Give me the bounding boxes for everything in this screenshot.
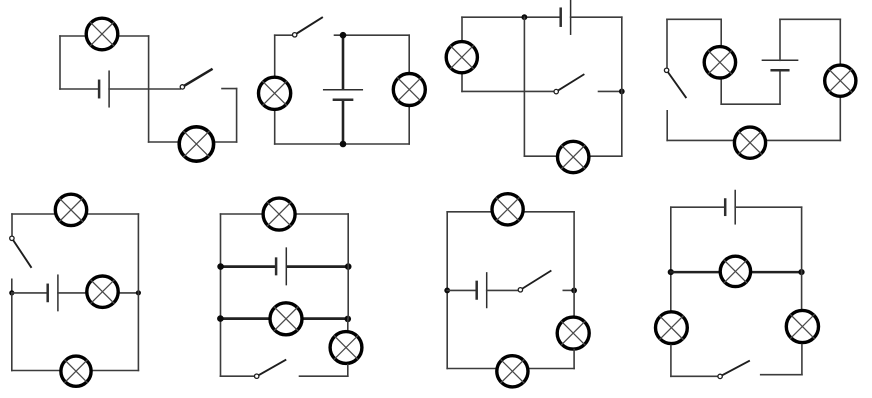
lamp C6 middle [270,303,302,335]
wire C8 bottom-left horizontal [671,375,718,377]
junction C5 right [136,290,141,295]
lamp C2 left [259,77,291,109]
wire C1 hook horizontal [222,88,237,90]
wire C7 left vertical [446,212,448,369]
wire C6 right vertical lower [347,365,349,377]
lamp C7 bottom [497,356,528,387]
wire C6 battery row left [221,265,275,268]
wire C3 bottom horizontal [524,155,621,157]
wire C5 left vertical lower [11,293,13,371]
lamp C4 left [704,47,735,78]
wire C4 left vertical upper [666,19,668,68]
switch C5 [10,236,31,267]
wire C7 right vertical upper [573,212,575,317]
wire C6 right vertical mid [347,319,349,331]
lamp C8 middle [720,256,750,286]
wire C4 right vertical [839,19,841,140]
battery C3 [561,0,571,34]
wire C8 right vertical upper [801,207,803,308]
wire C1 bottom horizontal [149,141,237,143]
lamp C6 right [330,332,362,364]
switch C2 [293,18,323,37]
lamp C1 top [86,18,118,50]
wire C7 bottom horizontal [447,368,574,370]
lamp C5 middle [87,276,118,307]
wire C7 switch-to-corner [563,289,574,291]
lamp C8 left [656,312,688,344]
wire C2 top-left segment [275,34,293,36]
wire C6 top horizontal [221,213,349,215]
wire C6 right vertical upper [347,214,349,319]
lamp C2 right [393,74,425,106]
junction C8 right [798,269,804,275]
junction C7 right [571,288,577,294]
lamp C7 top [492,194,523,225]
wire C6 left vertical [220,214,222,376]
wire C8 right vertical lower [801,345,803,375]
wire C8 left vertical lower [670,345,672,376]
wire C1 right vertical of top loop [148,36,150,142]
wire C5 left vertical upper [11,214,13,236]
battery C6 [276,248,286,285]
wire C8 left vertical upper [670,207,672,310]
junction C6 lamp-row right [345,316,352,323]
wire C8 middle row [671,271,802,274]
lamp C4 bottom [734,127,765,158]
wire C4 connector horizontal [721,103,780,105]
wire C2 middle vertical upper [342,35,345,88]
junction C6 battery-row right [345,263,352,270]
junction C3 right [619,89,625,95]
battery C5 [48,275,58,310]
junction C6 lamp-row left [217,315,224,322]
wire C1 battery row [60,88,99,90]
battery C7 [477,273,487,308]
wire C6 lamp row [221,317,348,320]
wire C3 switch-to-corner [599,90,622,92]
lamp C3 bottom [558,141,589,172]
wire C3 top-right horizontal [571,16,622,18]
junction C6 battery-row left [217,263,224,270]
wire C3 middle vertical [523,17,525,156]
wire C4 right top horizontal [780,18,840,20]
lamp C7 right [557,317,589,349]
wire C7 battery-to-switch [487,289,519,291]
switch C1 [180,70,211,90]
wire C4 left-loop top [667,18,721,20]
battery C4 [762,60,797,70]
junction C3 top [522,14,528,20]
lamp C5 bottom [61,356,91,386]
wire C3 left vertical [461,17,463,91]
lamp C6 top [263,198,295,230]
wire C6 battery row right [288,265,349,268]
lamp C5 top [55,194,86,225]
switch C8 [718,361,749,379]
wire C7 top horizontal [447,211,574,213]
switch C4 [664,68,685,97]
lamp C4 right [825,65,856,96]
junction C2 bottom [340,141,347,148]
wire C7 right vertical lower [573,350,575,369]
wire C1 top-left vertical [59,36,61,89]
wire C3 middle horizontal [462,90,554,92]
wire C7 battery row left [447,289,475,291]
lamp C3 left [446,42,477,73]
junction C7 left [444,288,450,294]
wire C2 left vertical [274,35,276,144]
wire C2 middle vertical lower [342,101,345,144]
switch C6 [255,360,286,378]
wire C6 bottom-right horizontal [300,375,348,377]
junction C8 left [668,269,674,275]
lamp C8 right [786,310,818,342]
wire C4 left-loop right vertical [720,19,722,104]
wire C5 left stub above junction [11,279,13,293]
wire C2 bottom horizontal [275,143,410,145]
lamp C1 bottom [179,127,213,161]
switch C3 [554,75,584,94]
battery C8 [725,191,735,224]
wire C4 left vertical lower [666,111,668,141]
wire C1 battery-to-switch [109,88,180,90]
junction C5 left [9,290,14,295]
wire C4 bottom horizontal [667,139,840,141]
wire C5 top horizontal [12,213,138,215]
wire C1 top horizontal [60,35,149,37]
battery C1 [99,71,109,107]
wire C8 top-right horizontal [735,206,801,208]
wire C5 right vertical [137,214,139,371]
wire C5 battery row right [58,292,138,294]
wire C2 right vertical [408,35,410,144]
switch C7 [518,271,550,292]
wire C8 top-left horizontal [671,206,724,208]
battery C2 [324,90,363,100]
wire C5 battery row left [12,292,47,294]
wire C4 battery vertical upper [779,19,781,60]
wire C1 hook vertical [236,89,238,142]
wire C6 bottom-left horizontal [220,375,254,377]
wire C2 top-right segment [335,34,410,36]
wire C5 bottom horizontal [12,370,139,372]
junction C2 top [340,32,347,39]
wire C3 right vertical [621,17,623,156]
wire C3 top-left horizontal [462,16,560,18]
wire C4 battery vertical lower [779,70,781,104]
wire C8 bottom-right horizontal [761,374,802,376]
